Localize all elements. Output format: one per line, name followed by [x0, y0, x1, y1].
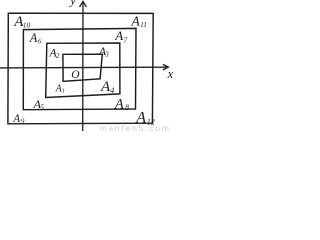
svg-text:3: 3: [104, 50, 109, 58]
svg-text:5: 5: [40, 104, 44, 112]
label A4: [100, 79, 114, 95]
y-axis: [80, 1, 87, 131]
svg-text:A: A: [114, 28, 123, 43]
svg-text:9: 9: [21, 117, 25, 125]
label A6: [29, 31, 42, 46]
svg-text:x: x: [167, 67, 174, 81]
x-axis: [0, 64, 168, 70]
label A5: [33, 97, 45, 111]
label A3: [98, 44, 110, 58]
svg-text:2: 2: [56, 52, 60, 60]
svg-text:manfen5.com: manfen5.com: [100, 123, 171, 131]
svg-text:A: A: [114, 96, 124, 112]
svg-text:A: A: [29, 31, 38, 45]
svg-text:8: 8: [125, 103, 129, 112]
label A8: [114, 96, 129, 112]
svg-text:11: 11: [140, 20, 147, 29]
svg-text:6: 6: [38, 37, 42, 45]
label A10: [13, 14, 30, 30]
small center rectangle: [63, 54, 102, 81]
svg-text:O: O: [71, 69, 80, 81]
label A1: [55, 83, 65, 94]
svg-text:7: 7: [123, 35, 127, 44]
svg-text:4: 4: [110, 86, 114, 95]
label A11: [131, 13, 148, 29]
svg-text:1: 1: [62, 89, 65, 95]
middle rectangle A5-A6-A7-A8: [23, 28, 136, 109]
svg-text:A: A: [12, 113, 21, 125]
svg-text:A: A: [131, 13, 141, 28]
inner rectangle A1-A2-A3-A4: [46, 43, 120, 98]
label A2: [48, 46, 60, 61]
svg-text:10: 10: [23, 20, 31, 29]
outer rectangle A9-A10-A11-A12: [8, 13, 153, 124]
svg-text:y: y: [68, 0, 76, 8]
label A9: [12, 113, 25, 125]
label A12: [135, 110, 154, 127]
label A7: [114, 28, 127, 45]
